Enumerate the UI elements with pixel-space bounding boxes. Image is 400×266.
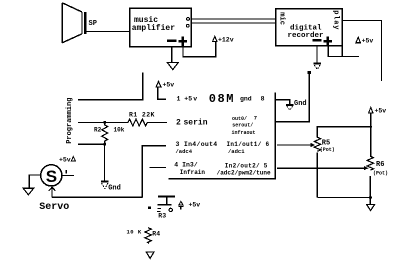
wire chip pin6 to R5 wiper bbox=[277, 144, 312, 146]
pushbutton R3 stem bbox=[166, 196, 168, 204]
power arrow +12v bbox=[213, 36, 217, 41]
wire chip pin5 to R6 wiper bbox=[277, 167, 365, 169]
servo pin1 tick bbox=[65, 170, 67, 173]
wire servo signal bbox=[52, 196, 142, 198]
svg-text:SP: SP bbox=[89, 20, 97, 28]
ground right block bbox=[367, 204, 375, 210]
wire amp plus to +12v bbox=[183, 42, 216, 57]
svg-text:+12v: +12v bbox=[218, 37, 234, 44]
svg-text:8: 8 bbox=[261, 96, 265, 103]
pushbutton R3 top bar bbox=[158, 195, 175, 197]
wire recorder minus to ground bbox=[316, 46, 318, 63]
amplifier plus terminal bbox=[178, 37, 187, 46]
wire servo right lead bbox=[62, 175, 74, 177]
speaker SP driver bar bbox=[84, 12, 87, 34]
svg-text:1 +5: 1 +5 bbox=[177, 96, 193, 103]
svg-text:/adc4: /adc4 bbox=[176, 148, 193, 155]
svg-text:/adc1: /adc1 bbox=[228, 148, 245, 155]
wire chip pin8 gnd bbox=[275, 100, 290, 105]
wire to ground R6 bbox=[369, 198, 371, 205]
wire programming pin1 bbox=[78, 73, 143, 100]
resistor R6 bbox=[367, 156, 373, 170]
wire +5v rail down to R6 bbox=[370, 113, 372, 156]
svg-text:Servo: Servo bbox=[39, 202, 69, 213]
svg-text:gnd: gnd bbox=[240, 96, 252, 103]
node junction R2 top bbox=[103, 121, 106, 124]
svg-text:serout/: serout/ bbox=[232, 123, 253, 129]
arrow into servo bbox=[49, 187, 56, 197]
wire chip pin3 bbox=[142, 146, 166, 198]
wire chip pin4 stub bbox=[150, 167, 166, 169]
power arrow +5v chip pin1 bbox=[156, 81, 161, 87]
node junction bottom rail bbox=[369, 196, 372, 199]
power arrow servo bbox=[71, 157, 75, 162]
svg-text:serin: serin bbox=[184, 118, 208, 127]
svg-text:S: S bbox=[46, 167, 57, 186]
svg-text:mic: mic bbox=[277, 12, 285, 25]
ground below R2 (dashed) bbox=[101, 182, 108, 189]
svg-text:Gnd: Gnd bbox=[294, 100, 307, 108]
node junction rail bbox=[370, 126, 372, 128]
amplifier box U1 bbox=[130, 8, 192, 47]
wire servo left lead bbox=[29, 175, 40, 188]
recorder minus terminal bbox=[313, 39, 322, 41]
svg-text:recorder: recorder bbox=[288, 32, 324, 40]
wire programming pin2 serin left bbox=[78, 122, 128, 124]
svg-text:08M: 08M bbox=[209, 92, 235, 106]
pushbutton R3 left contact dashes bbox=[157, 208, 161, 211]
servo circle bbox=[41, 165, 62, 186]
svg-text:+5v: +5v bbox=[375, 108, 387, 115]
svg-text:R2: R2 bbox=[94, 127, 102, 134]
power symbol +5v pushbutton bbox=[179, 201, 183, 205]
power arrow +5v rail bbox=[369, 107, 373, 113]
wire R5 bottom bbox=[316, 153, 318, 198]
wire R6 bottom bbox=[369, 176, 371, 198]
svg-text:(Pot): (Pot) bbox=[320, 147, 335, 153]
svg-text:(Pot): (Pot) bbox=[373, 171, 388, 177]
svg-text:infraout: infraout bbox=[232, 130, 256, 136]
svg-text:R3: R3 bbox=[158, 213, 166, 220]
svg-text:+5v: +5v bbox=[59, 156, 71, 163]
svg-text:+5v: +5v bbox=[189, 202, 201, 209]
svg-text:R1 22K: R1 22K bbox=[129, 112, 155, 119]
svg-text:Infrain: Infrain bbox=[180, 169, 206, 176]
svg-text:amplifier: amplifier bbox=[132, 24, 175, 33]
arrowhead R5 wiper bbox=[311, 143, 315, 147]
wire R2 to ground bbox=[104, 144, 106, 181]
resistor R5 bbox=[314, 137, 320, 151]
amplifier output terminal o top bbox=[187, 18, 190, 21]
wire amp to recorder bottom bbox=[191, 22, 275, 24]
wire speaker to amplifier bbox=[87, 31, 130, 33]
recorder plus terminal bbox=[323, 36, 332, 46]
svg-text:+5v: +5v bbox=[362, 38, 374, 45]
wire R5 top to rail bbox=[317, 127, 370, 138]
wire +5v to pin1 bbox=[158, 87, 166, 99]
pushbutton R3 right contact circle bbox=[169, 208, 172, 211]
wire recorder play output bbox=[342, 21, 381, 82]
pushbutton R3 bottom bar bbox=[158, 204, 172, 206]
node junction R2 bottom bbox=[103, 143, 106, 146]
svg-text:Programming: Programming bbox=[66, 98, 74, 144]
svg-text:7: 7 bbox=[254, 115, 257, 122]
power arrow +5v recorder bbox=[356, 37, 361, 42]
amplifier output terminal o bottom bbox=[186, 24, 189, 27]
svg-text:R4: R4 bbox=[152, 230, 160, 237]
ground below R4 bbox=[146, 252, 154, 259]
digital recorder box U2 bbox=[276, 9, 343, 46]
wire amp minus to ground bbox=[171, 47, 173, 63]
ground servo bbox=[23, 188, 33, 195]
svg-text:+5v: +5v bbox=[163, 81, 175, 88]
wire amp to recorder top bbox=[191, 18, 275, 20]
resistor R2 bbox=[102, 123, 108, 144]
chip 08M box right and bottom edge bbox=[169, 92, 276, 178]
ground chip pin8 (dashed) bbox=[286, 105, 293, 110]
amplifier minus terminal bbox=[167, 39, 176, 42]
ground below recorder (dashed) bbox=[313, 64, 321, 70]
node terminal dot pin7 bbox=[308, 71, 311, 74]
wire chip pin7 up bbox=[275, 73, 309, 122]
wire programming pin3 bbox=[78, 143, 105, 145]
arrowhead R6 wiper bbox=[364, 166, 368, 170]
svg-text:Gnd: Gnd bbox=[108, 184, 121, 192]
svg-text:10k: 10k bbox=[114, 127, 125, 134]
svg-text:play: play bbox=[332, 10, 340, 30]
wire recorder plus to +5v bbox=[328, 46, 359, 57]
wire bottom rail bbox=[317, 197, 370, 199]
speaker SP cone bbox=[62, 3, 82, 43]
node dot left of R3 bbox=[148, 207, 151, 210]
svg-text:out0/: out0/ bbox=[232, 116, 247, 122]
wire R1 to serin bbox=[147, 122, 167, 124]
ground below amplifier bbox=[167, 63, 178, 70]
svg-text:R6: R6 bbox=[376, 161, 384, 169]
svg-text:v: v bbox=[193, 96, 197, 103]
resistor R1 bbox=[128, 119, 147, 126]
svg-text:10 K: 10 K bbox=[127, 229, 142, 236]
svg-text:2: 2 bbox=[176, 118, 181, 127]
svg-text:4 In3/: 4 In3/ bbox=[174, 162, 198, 169]
svg-text:3 In4/out4: 3 In4/out4 bbox=[176, 141, 218, 148]
resistor R4 bbox=[145, 228, 151, 244]
svg-text:/adc2/pwm2/tune: /adc2/pwm2/tune bbox=[217, 169, 271, 176]
